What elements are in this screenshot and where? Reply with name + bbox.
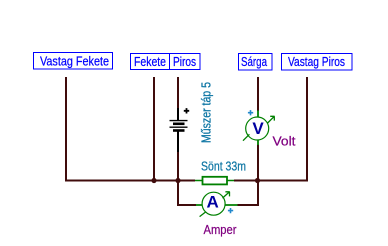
svg-text:Piros: Piros	[173, 54, 196, 69]
svg-text:Sönt 33m: Sönt 33m	[201, 159, 246, 174]
svg-text:Vastag Fekete: Vastag Fekete	[40, 54, 109, 69]
svg-text:A: A	[206, 193, 218, 212]
svg-text:Fekete: Fekete	[134, 54, 166, 69]
svg-text:Amper: Amper	[204, 222, 238, 237]
svg-text:Vastag Piros: Vastag Piros	[288, 54, 345, 69]
svg-text:Műszer táp 5: Műszer táp 5	[200, 82, 214, 143]
svg-text:Sárga: Sárga	[241, 54, 268, 69]
svg-text:V: V	[252, 119, 264, 138]
svg-text:Volt: Volt	[273, 133, 296, 148]
